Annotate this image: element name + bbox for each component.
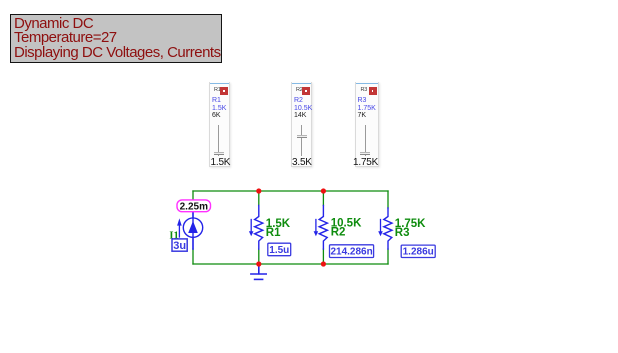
svg-text:R1: R1	[266, 227, 281, 239]
I1 source current label 2.25m	[177, 200, 211, 212]
svg-text:1.286u: 1.286u	[403, 247, 434, 258]
junction node dot top R2	[321, 188, 326, 193]
I1 direction arrow	[177, 218, 182, 237]
svg-text:214.286n: 214.286n	[330, 247, 372, 258]
R2 current arrow	[314, 220, 319, 237]
I1 value box 3u	[172, 239, 187, 252]
svg-text:1.5u: 1.5u	[269, 245, 289, 256]
wire top rail	[193, 190, 388, 192]
slider panel R3	[355, 82, 379, 167]
wire right vertical (R3 stubs)	[387, 191, 389, 264]
R1 current arrow	[249, 220, 254, 237]
wire left vertical	[192, 191, 194, 264]
resistor R3	[384, 208, 392, 249]
wire R1 stubs	[258, 191, 260, 264]
resistor R1	[255, 206, 263, 250]
junction node dot bottom R1	[256, 261, 261, 266]
node voltage box 1.5u	[268, 243, 291, 256]
wire bottom rail	[193, 263, 388, 265]
svg-text:R3: R3	[395, 227, 410, 239]
svg-text:R2: R2	[331, 227, 346, 239]
node voltage box 214.286n	[330, 245, 374, 258]
slider panel R1	[209, 82, 230, 167]
slider panel R2	[291, 82, 312, 167]
info banner: Dynamic DC	[10, 14, 222, 63]
R3 current arrow	[378, 220, 383, 237]
current source I1	[183, 206, 202, 250]
ground	[251, 264, 266, 279]
wire R2 stubs	[322, 191, 324, 264]
svg-text:3u: 3u	[173, 240, 186, 252]
svg-text:2.25m: 2.25m	[180, 201, 208, 212]
junction node dot bottom R2	[321, 261, 326, 266]
node voltage box 1.286u	[401, 245, 435, 258]
resistor R2	[319, 206, 327, 250]
junction node dot top R1	[256, 188, 261, 193]
